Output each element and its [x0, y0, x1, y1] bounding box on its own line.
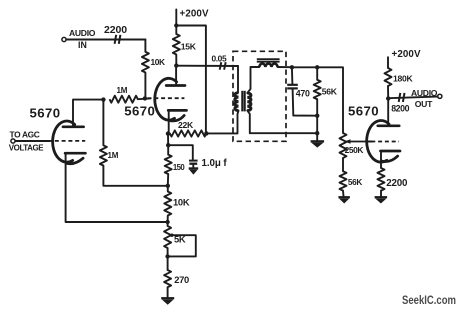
capacitor C4 8200 — [399, 93, 401, 102]
svg-text:250K: 250K — [345, 145, 364, 155]
wire to ground — [316, 116, 318, 142]
resistor R4 15K — [175, 26, 177, 35]
shield box (dashed) — [233, 51, 286, 141]
svg-text:OUT: OUT — [415, 99, 433, 109]
svg-text:22K: 22K — [178, 120, 194, 130]
wire input to C1 — [66, 39, 145, 41]
svg-text:+200V: +200V — [392, 49, 421, 60]
wire 56K node to 250K — [317, 67, 343, 133]
node +200V — [174, 23, 178, 27]
svg-text:2200: 2200 — [104, 24, 127, 36]
node 15K bottom — [174, 63, 178, 67]
svg-text:5670: 5670 — [30, 106, 61, 121]
svg-text:+200V: +200V — [180, 8, 209, 19]
svg-text:56K: 56K — [322, 87, 338, 97]
V3 grid (dashed) — [371, 141, 399, 143]
node 1M bottom junction — [166, 184, 170, 188]
svg-text:AUDIO: AUDIO — [69, 28, 96, 38]
node plate V1 / 1M — [101, 97, 105, 101]
wire node to C3 — [291, 67, 294, 84]
svg-text:2200: 2200 — [386, 178, 408, 189]
terminal AUDIO IN — [62, 37, 66, 41]
triode V1 5670 envelope — [53, 121, 75, 162]
resistor R1 10K — [142, 52, 149, 73]
wire T1 secondary top to L1 — [247, 67, 259, 93]
svg-text:TO AGC: TO AGC — [10, 129, 40, 139]
terminal TO AGC VOLTAGE — [11, 139, 15, 143]
resistor R12 10K — [167, 186, 169, 192]
resistor R9 180K — [385, 68, 392, 86]
wire 250K to 56K lower — [342, 158, 344, 171]
capacitor C3 470 — [287, 84, 298, 86]
svg-text:5670: 5670 — [348, 103, 379, 118]
supply +200V left — [175, 10, 177, 26]
V2 grid (dashed) — [148, 97, 185, 99]
capacitor C2 0.05 — [220, 62, 222, 70]
svg-text:0.05: 0.05 — [212, 54, 227, 64]
ground G1 — [311, 140, 325, 142]
wire T1 secondary bottom to ground bus — [247, 110, 317, 133]
triode V3 5670 envelope — [367, 121, 389, 163]
svg-text:VOLTAGE: VOLTAGE — [9, 144, 44, 153]
resistor R2 1M horizontal — [110, 96, 138, 103]
wire +200V branch down to 22K node — [176, 26, 206, 134]
wire R8 to ground — [380, 191, 382, 198]
wire tap to C5 — [168, 145, 193, 160]
transformer T1 core — [241, 91, 243, 112]
R6 wiper arrow — [349, 141, 367, 143]
svg-text:10K: 10K — [151, 57, 166, 67]
resistor R3 1M vertical — [100, 145, 107, 165]
resistor R5 56K — [316, 67, 318, 80]
wire AGC terminal to V1 grid — [15, 140, 50, 142]
wire V1 cathode down and right — [66, 153, 168, 222]
node 22K right — [204, 131, 208, 135]
ground G3 — [375, 196, 388, 198]
svg-text:AUDIO: AUDIO — [411, 88, 438, 98]
wire R1 to grid node — [144, 73, 146, 99]
R13 slider strap — [170, 234, 173, 237]
V1 grid (dashed) — [48, 140, 85, 142]
node 56K top — [315, 65, 319, 69]
transformer T1 secondary winding — [247, 93, 251, 111]
wire T1 primary bottom to 22K node — [206, 111, 238, 134]
V3 cathode — [381, 150, 401, 153]
ground G2 — [338, 196, 350, 198]
svg-text:270: 270 — [174, 274, 189, 285]
wire wiper to V3 grid — [366, 141, 372, 143]
svg-text:SeekIC.com: SeekIC.com — [402, 293, 456, 307]
node V1 cathode junction — [165, 220, 169, 224]
wire C2 to transformer — [237, 66, 239, 93]
wire R7 to ground — [342, 191, 345, 198]
terminal AUDIO OUT — [438, 94, 442, 98]
ground G4 — [189, 167, 199, 169]
wire V1 plate to node — [73, 100, 103, 126]
svg-text:470: 470 — [296, 88, 310, 98]
svg-text:5670: 5670 — [124, 104, 155, 119]
resistor R13 5K — [167, 222, 169, 226]
resistor R7 56K lower — [340, 171, 347, 190]
wire V3 plate to output node — [387, 99, 389, 126]
wire C1 to R1 — [144, 40, 146, 52]
capacitor C5 1.0uF — [189, 160, 198, 162]
svg-text:56K: 56K — [348, 178, 363, 187]
V1 plate — [63, 125, 84, 128]
svg-text:180K: 180K — [393, 73, 413, 83]
resistor R10 22K — [168, 133, 170, 135]
wire R2 to grid node — [138, 97, 151, 100]
resistor R14 270 — [167, 256, 169, 270]
wire C4 to output terminal — [437, 96, 439, 98]
node V2 cathode — [166, 131, 170, 135]
potentiometer R6 250K — [340, 133, 347, 158]
L1 core bars — [257, 58, 280, 60]
node grid V2 — [143, 96, 147, 100]
svg-text:10K: 10K — [173, 196, 190, 207]
node output — [386, 96, 390, 100]
svg-text:1M: 1M — [108, 151, 119, 160]
wire L1 to 470/56K — [278, 66, 292, 68]
wire output node to C4 — [388, 97, 437, 99]
V1 cathode — [65, 152, 85, 155]
V2 cathode — [168, 109, 186, 112]
wire R9 to output node — [387, 86, 389, 99]
wire 15K node to C2 — [176, 65, 238, 67]
wire C3 bottom to ground node — [293, 89, 318, 116]
node 470 top — [290, 65, 294, 69]
wire V3 cathode to R8 — [380, 151, 382, 168]
svg-text:150: 150 — [173, 163, 185, 172]
resistor R8 2200 — [378, 168, 385, 191]
wire node to V2 plate — [175, 66, 177, 86]
transformer T1 primary winding — [235, 93, 239, 111]
triode V2 5670 envelope — [155, 78, 177, 120]
node ground bus upper — [315, 114, 319, 118]
node bypass tap — [166, 143, 170, 147]
svg-text:1M: 1M — [117, 86, 128, 95]
supply +200V right — [387, 57, 389, 68]
wire cathode node down — [167, 134, 169, 146]
wire R3 to 150/10K junction — [103, 166, 167, 186]
wire V2 cathode to node — [168, 110, 170, 133]
node ground bus lower — [315, 131, 319, 135]
wire node to R3 — [102, 100, 104, 146]
inductor L1 — [259, 64, 277, 67]
V3 plate — [378, 124, 399, 127]
capacitor C1 2200 — [115, 35, 117, 44]
svg-text:1.0μ f: 1.0μ f — [202, 158, 228, 169]
svg-text:15K: 15K — [181, 41, 197, 51]
svg-text:IN: IN — [78, 40, 87, 50]
svg-text:8200: 8200 — [391, 104, 409, 114]
ground G5 — [161, 297, 174, 299]
V2 plate — [166, 84, 185, 87]
resistor R11 150 — [167, 145, 169, 154]
